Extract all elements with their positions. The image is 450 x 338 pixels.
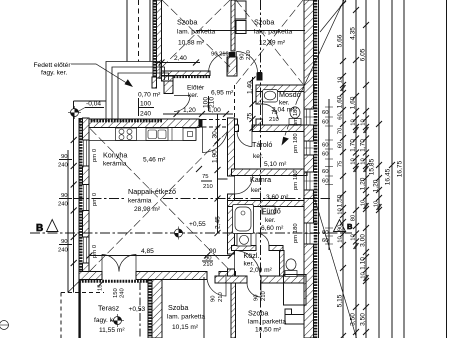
label entry door area [138,92,161,99]
wall Tarolo north wall [252,125,307,132]
dim tick chain356 tick 60 [353,57,359,63]
label szoba3 door 210 [203,262,214,268]
label chain329 60 at 171 [322,169,329,175]
dim tick chain366 tick 158 [363,155,369,161]
label sill label pm180 1 [293,106,299,126]
label szoba4 door 210 [261,290,267,301]
dim tick chain366 tick 166 [363,163,369,169]
chain line x392 [391,0,393,338]
wall Eloter west pier [164,81,173,94]
label Eloter area [211,90,234,97]
wall porch step pier [152,77,157,88]
svg-text:Terasz: Terasz [98,304,120,313]
svg-text:4,85: 4,85 [141,248,154,255]
dim tick chain366 tick 25 [363,22,369,28]
Szoba1 diagonal 1 [162,0,230,67]
dim tick chain379 tick 165 [376,162,382,168]
svg-text:10,50 m²: 10,50 m² [255,327,282,334]
dim tick chain343 tick 222 [340,219,346,225]
chain tick x329 [325,166,333,168]
dim tick chain343 tick 76 [340,73,346,79]
dim tick chain366 tick 252 [363,249,369,255]
wardrobe Szoba2 upper [235,1,246,19]
leader Fedett eloter with arrow [71,64,133,87]
dim tick k1 [215,125,221,131]
dim tick chain379 tick 198 [376,195,382,201]
svg-text:6,95 m²: 6,95 m² [211,90,234,97]
west wall inner edge [88,128,90,272]
dim tick chain343 tick 4 [340,1,346,7]
svg-text:1,70: 1,70 [360,139,367,152]
survey marker north-west corner [68,106,81,119]
dim tick chain366 tick 270 [363,267,369,273]
furniture Szoba4 low [285,315,304,325]
porch canopy line right [149,0,151,62]
label chain343 5,15 at 301 [337,294,344,307]
svg-text:Konyha: Konyha [103,151,127,160]
label sill label pm180 2 [293,133,299,153]
label sill label pm180 3 [293,170,299,190]
label Szoba4 name [248,309,268,318]
svg-text:ker.: ker. [188,92,199,99]
Szoba1 door swing arc [209,53,229,73]
svg-text:pm 0: pm 0 [92,244,98,258]
toilet WC [285,259,297,277]
dim tick chain366 tick 118.5 [363,116,369,122]
svg-text:0,70 m²: 0,70 m² [138,92,161,99]
label west window 2 width [61,193,68,199]
west eave / dimension line [73,101,75,293]
kitchen appliance [172,128,196,141]
svg-text:60: 60 [322,179,329,185]
svg-text:16,45: 16,45 [385,168,392,185]
svg-text:fagy. ker.: fagy. ker. [41,70,67,77]
svg-text:Szoba: Szoba [248,309,268,318]
eave miter diagonal [68,281,80,293]
label Furdo area [261,225,284,232]
label chain total 16,45 [385,168,392,185]
svg-text:Mosdó: Mosdó [279,90,301,99]
dim tick chain356 tick 307 [353,304,359,310]
svg-text:Fedett előtér: Fedett előtér [34,62,72,69]
wall Szoba4 west wall [231,283,236,338]
label french door 240 [120,287,126,298]
svg-text:75: 75 [338,160,344,167]
chain tick x329 [325,158,333,160]
svg-text:210: 210 [246,49,252,60]
svg-text:60: 60 [322,110,329,116]
svg-text:210: 210 [218,291,224,302]
wall Furdo north wall [228,201,308,207]
dim tick chain356 tick 210 [353,207,359,213]
label west window 2 height [58,202,69,208]
svg-text:ker.: ker. [279,100,290,107]
dim tick chain356 tick 111 [353,108,359,114]
svg-text:Szoba: Szoba [168,303,188,312]
west window 1 fraction bar [59,159,72,161]
wall east wall pier 2 [304,125,314,141]
insulation strip Szoba1 west wall insulation [153,0,157,78]
window W1 in west wall [79,140,89,166]
Szoba1 diagonal 2 [162,0,230,67]
label chain343 60 at 145 [338,141,344,148]
dim tick chain356 tick 138.5 [353,136,359,142]
dim tick chain366 tick 281 [363,278,369,284]
label chain343 90 at 228 [338,224,344,231]
svg-text:60: 60 [338,113,344,120]
label west window 3 height [58,248,69,254]
label Kozl area [250,267,273,274]
label Szoba2 floor [254,29,292,36]
label chain total 15,85 [369,158,376,175]
svg-text:210: 210 [261,290,267,301]
svg-text:Tároló: Tároló [252,140,272,149]
svg-text:3,60 m²: 3,60 m² [266,194,289,201]
label Kamra floor [251,187,262,194]
washbasin Mosdo [263,90,278,103]
dim tick nap t1 [196,166,202,172]
porch canopy line left [126,0,128,62]
svg-text:75: 75 [202,174,209,180]
svg-text:5,46 m²: 5,46 m² [143,157,166,164]
svg-text:+0,53: +0,53 [129,306,146,313]
dim tick chain343 tick 152 [340,149,346,155]
label dim 210 nappali [203,184,214,190]
svg-text:pm 180: pm 180 [293,133,299,153]
label Terasz floor [94,317,120,324]
svg-text:pm 180: pm 180 [293,223,299,243]
dim tick chain356 tick 158 [353,155,359,161]
label Nappali floor [128,198,152,205]
dim tick 4,85 r [228,253,234,259]
Mosdo door arc [263,104,278,119]
dim tick chain343 tick 245 [340,242,346,248]
svg-text:Közl.: Közl. [244,251,260,260]
dim tick chain366 tick 127 [363,124,369,130]
label Mosdo name [279,90,301,99]
svg-text:lam. parketta: lam. parketta [167,314,205,321]
svg-text:lam. parketta: lam. parketta [177,29,215,36]
terrace eave west line [67,150,69,293]
dim tick eloter t2 [199,111,205,117]
dim tick 4,85 l [87,253,93,259]
wall Konyha north wall (east stub) [233,119,238,128]
dim tick chain379 tick 190 [376,187,382,193]
label level -0,04 [86,101,101,108]
svg-text:60: 60 [338,141,344,148]
svg-text:Előtér: Előtér [187,85,205,92]
label Tarolo area [264,161,287,168]
vertical axis centerline [260,0,262,338]
label chain356 4,35 at 33.5 [350,27,357,40]
svg-text:15: 15 [98,284,104,291]
label eloter door h [209,97,216,108]
nappali door fraction [201,180,212,182]
west wall outer edge [78,118,80,281]
svg-text:90: 90 [254,294,260,301]
label Terasz name [98,304,120,313]
label Szoba1 area [178,40,205,47]
dim tick dim 2,45 tick bottom [215,230,221,236]
svg-text:60: 60 [322,230,329,236]
dim tick chain356 tick 241.5 [353,239,359,245]
window E4 in east wall [304,223,319,244]
label dim 2,45 [215,216,222,229]
label chain329 60 at 180.5 [322,179,329,185]
Eloter-Nappali door arc [203,128,228,153]
west window 2 fraction bar [59,198,72,200]
wall east wall pier 4 [304,190,314,223]
Kozl door arc [235,251,261,277]
french door leaf west [102,255,119,272]
dim tick chain356 tick 10 [353,7,359,13]
label chain366 10 at 203 [361,199,367,206]
svg-text:90: 90 [211,52,218,58]
dim tick chain366 tick 332 [363,329,369,335]
svg-text:16,75: 16,75 [397,160,404,177]
label chain343 60 at 116.5 [338,113,344,120]
horizontal axis centerline east [163,198,330,200]
dim tick 2,40 left [159,60,165,66]
dim tick eloter t1 [174,111,180,117]
insulation strip east wall insulation [314,0,318,338]
wall Kozl north wall east [269,246,283,251]
chain tick x329 [325,227,333,229]
svg-text:2,09 m²: 2,09 m² [250,267,273,274]
label chain366 3,00 at 240.5 [360,234,367,247]
door jamb block [257,73,263,81]
label Szoba1 name [177,18,197,27]
label entry door height [140,111,151,118]
label dim 90 door [209,248,217,255]
svg-text:60: 60 [322,152,329,158]
dim tick chain366 tick 197 [363,194,369,200]
label chain343 10 at 211.5 [338,208,344,215]
Kamra door arc [235,176,253,194]
dim tick chain343 tick 93 [340,90,346,96]
dim tick chain366 tick 190 [363,187,369,193]
label dim 4,85 [141,248,154,255]
szoba3 fraction [202,260,213,262]
break mark chain366 break4 [363,275,368,281]
long reference diagonal upper [320,0,346,32]
svg-text:ker.: ker. [253,153,264,160]
thin wall top edge [258,72,263,74]
wall partition Szoba1/Szoba2 [231,0,235,51]
dim tick chain343 tick 208 [340,205,346,211]
Szoba4 door arc [247,283,261,297]
reference line through parketta labels [196,30,305,32]
dim line Eloter [163,113,233,115]
svg-text:+0,55: +0,55 [189,221,206,228]
wall east wall pier 5 [304,244,314,338]
label dim 75 mosdo [247,112,254,120]
label Furdo name [262,207,281,216]
dim tick chain343 tick 85 [340,82,346,88]
tree symbol at west edge [0,321,9,330]
svg-text:240: 240 [58,202,69,208]
Szoba3 wall outer edge [147,280,149,338]
label szoba4 door 90 [254,294,260,301]
wall WC partition [280,251,285,277]
break mark chain366 break3 [363,203,368,209]
label chain343 10 at 80 [338,76,344,83]
label level +0,55 [189,221,206,228]
svg-text:10,15 m²: 10,15 m² [172,324,199,331]
Szoba2 diagonal 1 [236,0,303,84]
wall Kamra north wall [232,169,308,176]
dim tick chain356 tick 166 [353,163,359,169]
label sill label pm0 3 [92,244,98,258]
label chain356 10 at 122.5 [351,119,357,126]
wall east wall pier 1 [304,0,314,109]
label level +0,53 [129,306,146,313]
dim tick west win tick 237 [71,234,77,240]
dim line 4,85 [90,255,232,257]
french door leaf east [119,255,136,272]
svg-text:kerámia: kerámia [128,198,152,205]
label chain343 1,50 at 201 [337,194,344,207]
chain tick x329 [325,125,333,127]
break mark chain366 break [363,127,368,133]
dim tick chain343 tick 268 [340,265,346,271]
porch canopy ridge (dashed) [138,0,140,62]
wall Mosdo west wall upper [256,92,263,105]
wall Szoba3 west wall [152,280,162,338]
label west window 1 height [58,163,69,169]
svg-text:240: 240 [58,248,69,254]
dim tick west win tick 184.5 [71,182,77,188]
partition end cap [229,52,236,58]
label chain366 10 at 275.5 [361,272,367,279]
label Nappali name [128,187,176,196]
stove with 4 burners [116,128,137,141]
wall outer edge line [152,0,154,78]
label sill label pm0 1 [92,148,98,162]
toilet Mosdo [289,107,301,125]
svg-text:1,50: 1,50 [337,194,344,207]
chain line x356 [355,0,357,338]
Furdo door arc [256,233,269,246]
break mark chain356 break 130 [353,127,358,133]
svg-text:6,60 m²: 6,60 m² [261,225,284,232]
window E2 in east wall [304,141,319,155]
svg-text:Fürdő: Fürdő [262,207,281,216]
label chain343 70 at 131 [338,127,344,134]
wall Szoba4 north wall east [261,276,307,283]
label chain329 60 at 121.5 [322,120,329,126]
svg-text:60: 60 [322,120,329,126]
label chain356 1,60 at 103 [350,96,357,109]
label chain356 10 at 161.5 [351,158,357,165]
label dim 75 nappali [202,174,209,180]
svg-text:12,39 m²: 12,39 m² [259,40,286,47]
radiator Furdo [262,206,275,214]
label szoba3 90b [205,256,212,262]
entry door dim extension [138,98,140,116]
label Fedett eloter callout line2 [41,70,67,77]
dim tick m4 [250,125,256,131]
section line B-B [30,232,352,234]
dim tick chain356 tick 127 [353,124,359,130]
wall Nappali east wall pier 1 [228,118,235,176]
dim tick m3 [250,116,256,122]
dim tick m1 [250,77,256,83]
dim tick chain356 tick 96 [353,93,359,99]
dim tick 2,40 right [193,60,199,66]
window W3 in west wall [79,237,89,263]
insulation strip south wall insulation [79,280,148,283]
label Nappali area [134,206,161,213]
label dim 2,40 [174,55,187,62]
chain tick x329 [325,106,333,108]
label west window 1 width [61,154,68,160]
svg-text:5,10 m²: 5,10 m² [264,161,287,168]
terrace canopy dashed edge [61,292,104,294]
dim tick chain343 tick 215 [340,212,346,218]
label mosdo door 75 [271,110,278,116]
label Eloter name [187,85,205,92]
svg-text:60: 60 [322,238,329,244]
west window 3 fraction bar [59,244,72,246]
svg-text:3,50: 3,50 [360,313,367,326]
horizontal axis centerline west [74,198,124,200]
break mark chain379 break [376,204,381,210]
Eloter axis dashed [234,85,236,119]
dim tick 4,85 m [204,253,210,259]
window W2 in west wall [79,185,89,211]
level leader to marker [78,108,85,112]
insulation strip Szoba3 west wall insulation [148,280,152,338]
Szoba3 door arc [207,277,226,296]
svg-text:pm 0: pm 0 [92,148,98,162]
Nappali diagonal 2 [90,129,231,272]
dim tick chain379 tick 178 [376,175,382,181]
svg-text:80: 80 [351,214,357,221]
wall corner pier at bedroom doors [227,57,237,76]
entry door fraction bar [139,107,154,109]
dim tick eave tick [98,281,104,287]
drawing frame line [446,0,448,338]
label Szoba2 area [259,40,286,47]
label chain329 60 at 240 [322,238,329,244]
wall east wall pier 3 [304,155,314,172]
dim tick k3 [215,167,221,173]
svg-text:11,55 m²: 11,55 m² [99,327,125,334]
svg-text:90: 90 [209,248,217,255]
label Kamra name [250,175,271,184]
svg-text:210: 210 [219,52,230,58]
dim tick chain366 tick 209 [363,206,369,212]
chain tick x329 [325,116,333,118]
svg-text:30: 30 [212,131,219,139]
section mark B left [36,220,58,235]
label french door 150 [113,287,119,298]
wall Nappali east wall pier 3 [228,269,235,277]
wall Eloter northwest return [162,76,174,81]
svg-text:1,60: 1,60 [350,96,357,109]
terrace canopy dashed west [60,293,62,338]
dim tick chain343 tick 110 [340,107,346,113]
label chain total 16,75 [397,160,404,177]
label sill label pm0 2 [92,192,98,206]
label chain366 1,10 at 263.5 [360,257,367,270]
dim tick west win tick 166 [71,163,77,169]
leader to Tarolo with arrow [282,0,345,146]
dim tick west win tick 263 [71,260,77,266]
svg-text:B: B [36,223,43,234]
Nappali diagonal 1 [90,129,231,272]
